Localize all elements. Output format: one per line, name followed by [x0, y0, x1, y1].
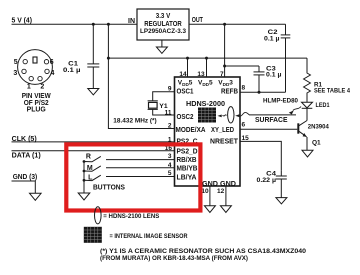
- transistor Q1 2N3904: [298, 121, 307, 151]
- label BUTTONS: [93, 185, 125, 192]
- node junction VDD5 pin14: [186, 57, 189, 60]
- LED light arrow to surface: [289, 107, 301, 115]
- ground pin 10: [204, 206, 215, 213]
- resistor R1: [304, 58, 311, 100]
- pin label REFB: [221, 89, 238, 96]
- node DATA net label: [12, 153, 41, 160]
- pin number 5: [168, 170, 172, 177]
- node junction C1 tap: [92, 23, 95, 26]
- internal image sensor icon: [198, 108, 216, 123]
- pin number 15: [242, 135, 250, 142]
- surface line: [249, 114, 296, 116]
- svg-text:LB/YA: LB/YA: [177, 174, 197, 181]
- node junction VDD3 tap: [223, 23, 226, 26]
- label 2N3904: [308, 124, 329, 131]
- svg-text:RB/XB: RB/XB: [177, 157, 197, 164]
- label LED1: [316, 102, 330, 109]
- wire REFB pin 8 to C2/C3: [240, 91, 286, 93]
- wire 3.3V drop to pin 7: [224, 24, 226, 77]
- lens inside IC: [228, 107, 234, 123]
- svg-text:0.1 µ: 0.1 µ: [264, 36, 280, 43]
- label PIN VIEW OF P/S2 PLUG: [22, 93, 51, 114]
- svg-text:6: 6: [50, 59, 54, 66]
- svg-text:8: 8: [242, 85, 246, 92]
- capacitor C2: [281, 24, 291, 92]
- op IC U1 HDNS-2000 box: [175, 77, 241, 186]
- wire stub to pin 13: [206, 58, 208, 77]
- pin number 9: [168, 86, 172, 93]
- wire buttons common: [83, 162, 85, 194]
- svg-text:2N3904: 2N3904: [308, 124, 329, 131]
- pin number 3: [168, 153, 172, 160]
- capacitor C3: [254, 66, 265, 92]
- pin number 6 plug: [50, 59, 54, 66]
- svg-text:NRESET: NRESET: [210, 139, 239, 146]
- svg-text:HDNS-2000: HDNS-2000: [186, 101, 225, 108]
- svg-text:0.22 µ: 0.22 µ: [257, 177, 277, 184]
- value label C2 0.1u: [264, 29, 280, 43]
- legend sensor text: [110, 233, 188, 240]
- node GND net label: [13, 174, 38, 181]
- wire branch to C3: [225, 65, 259, 67]
- svg-text:OSC2: OSC2: [177, 114, 194, 121]
- svg-text:MB/YB: MB/YB: [177, 166, 198, 173]
- pin label PS2_C: [177, 139, 198, 146]
- svg-text:3.3 V: 3.3 V: [156, 13, 171, 20]
- ground GND net: [30, 193, 42, 200]
- node junction 5V feeder tap: [107, 23, 110, 26]
- pin number 16: [165, 145, 173, 152]
- pin number 2: [168, 123, 172, 130]
- pin number 4: [168, 162, 172, 169]
- light path lens to surface: [235, 112, 249, 117]
- wire DATA to PS2_D pin 16: [12, 150, 175, 152]
- svg-text:PS2_D: PS2_D: [177, 149, 198, 156]
- svg-text:(FROM MURATA) OR KBR-18.43-MSA: (FROM MURATA) OR KBR-18.43-MSA (FROM AVX…: [100, 255, 248, 262]
- pin label GND GND: [202, 181, 236, 188]
- value label C1 0.1u: [63, 61, 81, 75]
- capacitor C4: [276, 171, 287, 198]
- ground buttons: [78, 193, 90, 200]
- legend sensor icon: [84, 227, 102, 243]
- svg-text:= HDNS-2100 LENS: = HDNS-2100 LENS: [103, 213, 160, 220]
- svg-text:R: R: [86, 154, 91, 161]
- svg-text:OSC1: OSC1: [177, 88, 194, 95]
- pin label VDD5 pin14: [178, 79, 193, 86]
- label L: [88, 175, 93, 182]
- label R: [86, 154, 91, 161]
- pin label IN: [128, 18, 135, 25]
- switch R: [83, 156, 175, 163]
- svg-text:5 V (4): 5 V (4): [12, 17, 33, 24]
- svg-text:BUTTONS: BUTTONS: [93, 185, 125, 192]
- svg-text:MODE/XA: MODE/XA: [176, 127, 206, 134]
- svg-text:PLUG: PLUG: [27, 107, 47, 114]
- pin label OSC1: [177, 88, 194, 95]
- footnote Y1 resonator: [100, 248, 306, 262]
- ground below C4: [276, 198, 287, 204]
- pin label MB/YB: [177, 166, 198, 173]
- value label R1 SEE TABLE 4: [314, 81, 350, 94]
- wire GND net: [12, 181, 36, 193]
- svg-text:LED1: LED1: [316, 102, 330, 109]
- svg-text:SEE TABLE 4: SEE TABLE 4: [314, 87, 350, 94]
- svg-text:LP2950ACZ-3.3: LP2950ACZ-3.3: [140, 28, 186, 35]
- svg-text:15: 15: [242, 135, 250, 142]
- svg-text:6: 6: [242, 121, 246, 128]
- label HDNS-2000: [186, 101, 225, 108]
- ground below Q1: [302, 150, 313, 157]
- label M: [87, 165, 93, 172]
- wire GND stub pin 10: [209, 186, 211, 206]
- pin label NRESET: [210, 139, 239, 146]
- svg-text:12: 12: [217, 188, 225, 195]
- pin label VDD5 pin13: [198, 79, 213, 86]
- svg-text:10: 10: [201, 188, 209, 195]
- pin label MODE/XA: [176, 127, 206, 134]
- svg-text:IN: IN: [128, 18, 135, 25]
- legend lens text: [103, 213, 160, 220]
- pin number 11: [165, 109, 172, 116]
- svg-text:4: 4: [51, 70, 55, 77]
- svg-text:1: 1: [27, 83, 31, 90]
- capacitor C1: [87, 24, 99, 88]
- svg-text:5: 5: [14, 59, 18, 66]
- connector P1 PS/2 plug: [18, 50, 53, 85]
- wire 5V to regulator IN: [12, 23, 138, 25]
- wire 5V rail: [108, 57, 307, 59]
- pin number 2 plug: [40, 83, 44, 90]
- pin label PS2_D: [177, 149, 198, 156]
- svg-text:0.1 µ: 0.1 µ: [266, 72, 282, 79]
- node junction C3 bottom: [258, 91, 261, 94]
- wire 3.3V from OUT to C2: [189, 23, 286, 25]
- node CLK net label: [12, 136, 37, 143]
- LED D1 HLMP-ED80: [302, 100, 313, 121]
- pin number 10: [201, 188, 209, 195]
- ground pin 12: [220, 206, 231, 213]
- pin number 5 plug: [14, 59, 18, 66]
- pin number 6: [242, 121, 246, 128]
- pin label XY_LED: [211, 127, 234, 134]
- svg-text:Y1: Y1: [159, 103, 168, 110]
- annotation red box around buttons: [66, 144, 200, 210]
- svg-text:REFB: REFB: [221, 89, 238, 96]
- svg-text:OUT: OUT: [192, 17, 204, 24]
- value label 18.432 MHz: [113, 118, 156, 125]
- node 5V net label: [12, 17, 33, 24]
- wire NRESET pin 15 to C4: [240, 141, 281, 170]
- svg-text:18.432 MHz (*): 18.432 MHz (*): [113, 118, 156, 125]
- pin label OUT: [192, 17, 204, 24]
- svg-text:XY_LED: XY_LED: [211, 127, 234, 134]
- wire GND stub pin 12: [225, 186, 227, 206]
- pin number 14: [179, 71, 187, 78]
- svg-text:2: 2: [168, 123, 172, 130]
- label SURFACE: [255, 117, 288, 124]
- svg-text:HLMP-ED80: HLMP-ED80: [263, 98, 298, 105]
- svg-text:GND GND: GND GND: [202, 181, 236, 188]
- pin number 8: [242, 85, 246, 92]
- svg-text:M: M: [87, 165, 93, 172]
- crystal Y1: [148, 92, 175, 115]
- node junction VDD5 pin13: [205, 57, 208, 60]
- pin label RB/XB: [177, 157, 197, 164]
- wire XY_LED pin 6 to Q1 base: [240, 128, 297, 130]
- value label C3 0.1u: [266, 65, 282, 78]
- node junction 5V rail start: [107, 57, 110, 60]
- svg-text:DATA (1): DATA (1): [12, 153, 41, 160]
- svg-text:3: 3: [13, 70, 17, 77]
- svg-text:(*) Y1 IS A CERAMIC RESONATOR: (*) Y1 IS A CERAMIC RESONATOR SUCH AS CS…: [100, 248, 306, 255]
- svg-text:GND (3): GND (3): [13, 174, 38, 181]
- svg-text:14: 14: [179, 71, 187, 78]
- wire CLK to PS2_C pin 1: [12, 141, 175, 143]
- svg-text:SURFACE: SURFACE: [255, 117, 288, 124]
- svg-text:Q1: Q1: [312, 140, 321, 147]
- svg-text:2: 2: [40, 83, 44, 90]
- pin number 12: [217, 188, 225, 195]
- light path sensor to lens: [218, 115, 227, 118]
- pin number 13: [197, 71, 205, 78]
- svg-text:0.1 µ: 0.1 µ: [63, 67, 81, 74]
- ground below regulator: [156, 40, 167, 53]
- pin number 1: [168, 136, 172, 143]
- value label C4 0.22u: [257, 171, 277, 184]
- pin number 4 plug: [51, 70, 55, 77]
- svg-text:13: 13: [197, 71, 205, 78]
- node junction C3 tap: [223, 65, 226, 68]
- label Q1: [312, 140, 321, 147]
- svg-text:= INTERNAL IMAGE SENSOR: = INTERNAL IMAGE SENSOR: [110, 233, 188, 240]
- wire stub to pin 14: [187, 58, 189, 77]
- switch L: [83, 175, 175, 182]
- ground below C1: [88, 89, 99, 95]
- pin label VDD3 pin7: [218, 79, 233, 86]
- pin number 3 plug: [13, 70, 17, 77]
- switch M: [83, 166, 175, 173]
- svg-text:L: L: [88, 175, 93, 182]
- pin number 1 plug: [27, 83, 31, 90]
- pin label LB/YA: [177, 174, 197, 181]
- regulator U2 LP2950ACZ-3.3: [137, 9, 189, 40]
- svg-text:7: 7: [220, 71, 224, 78]
- value label HLMP-ED80: [263, 98, 298, 105]
- pin number 7: [220, 71, 224, 78]
- label Y1: [159, 103, 168, 110]
- legend lens icon: [95, 207, 102, 224]
- pin label OSC2: [177, 114, 194, 121]
- wire 5V feeder vertical to MODE/XA pin 2: [108, 24, 174, 128]
- svg-text:REGULATOR: REGULATOR: [144, 21, 182, 28]
